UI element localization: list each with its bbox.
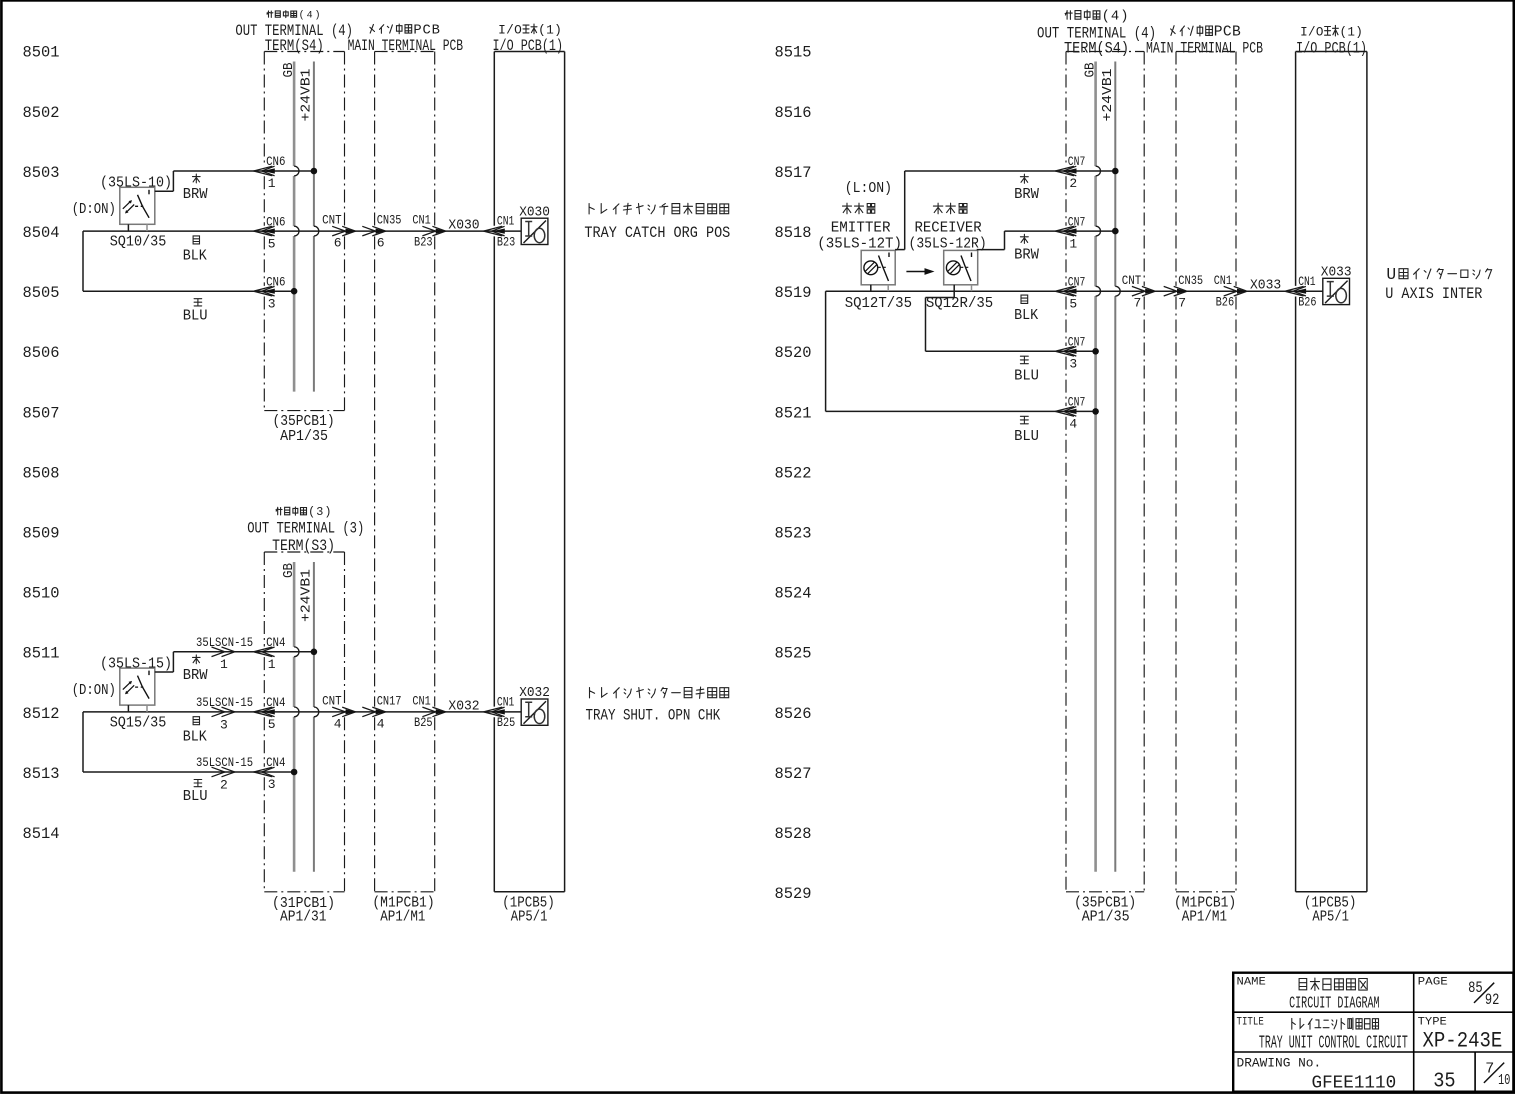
svg-text:CN35: CN35: [377, 213, 402, 228]
svg-text:35: 35: [1433, 1071, 1455, 1094]
svg-text:4: 4: [377, 716, 385, 731]
svg-text:PAGE: PAGE: [1418, 977, 1449, 989]
svg-text:CN35: CN35: [1178, 273, 1203, 288]
svg-text:8502: 8502: [23, 104, 60, 122]
svg-text:TYPE: TYPE: [1418, 1017, 1448, 1029]
svg-text:B: B: [432, 23, 440, 38]
svg-text:TRAY UNIT CONTROL CIRCUIT: TRAY UNIT CONTROL CIRCUIT: [1259, 1034, 1408, 1054]
svg-text:): ): [315, 9, 321, 21]
svg-text:8526: 8526: [775, 705, 812, 723]
svg-text:1: 1: [546, 22, 554, 37]
svg-text:TERM(S3): TERM(S3): [272, 537, 335, 555]
svg-text:B23: B23: [414, 234, 433, 249]
svg-text:I: I: [1300, 26, 1308, 40]
svg-text:8527: 8527: [775, 765, 812, 783]
svg-text:10: 10: [1498, 1072, 1510, 1089]
svg-text:+24VB1: +24VB1: [300, 69, 315, 122]
svg-text:AP1/35: AP1/35: [280, 428, 328, 445]
svg-text:GB: GB: [1083, 63, 1099, 78]
svg-text:(: (: [1340, 26, 1348, 40]
svg-text:X030: X030: [448, 219, 479, 234]
svg-text:8518: 8518: [775, 224, 812, 242]
svg-text:(35LS-15): (35LS-15): [100, 655, 172, 672]
svg-text:2: 2: [1069, 176, 1077, 191]
svg-text:SQ12R/35: SQ12R/35: [926, 295, 993, 312]
svg-text:AP5/1: AP5/1: [511, 909, 548, 926]
svg-text:7: 7: [1178, 296, 1186, 311]
svg-text:B: B: [1232, 25, 1241, 41]
svg-text:GB: GB: [281, 563, 297, 578]
svg-text:8511: 8511: [23, 645, 60, 663]
svg-text:C: C: [1223, 25, 1232, 41]
svg-text:(: (: [1102, 8, 1110, 24]
svg-text:6: 6: [334, 236, 342, 251]
svg-text:B26: B26: [1216, 295, 1235, 310]
svg-text:(D:ON): (D:ON): [72, 682, 116, 699]
svg-text:TITLE: TITLE: [1237, 1017, 1265, 1029]
svg-text:BLU: BLU: [1014, 428, 1039, 445]
svg-text:CN6: CN6: [266, 214, 285, 229]
svg-text:CN17: CN17: [377, 694, 402, 709]
svg-text:1: 1: [1347, 26, 1355, 40]
svg-text:AP1/31: AP1/31: [280, 909, 327, 926]
svg-text:OUT TERMINAL (3): OUT TERMINAL (3): [247, 519, 364, 537]
svg-text:4: 4: [1111, 9, 1119, 24]
svg-text:P: P: [413, 23, 421, 38]
svg-text:4: 4: [1069, 417, 1077, 432]
svg-text:(35LS-12R): (35LS-12R): [909, 235, 987, 252]
svg-text:CN1: CN1: [412, 694, 430, 709]
svg-text:B25: B25: [414, 715, 433, 730]
svg-text:8524: 8524: [775, 585, 812, 603]
svg-text:X032: X032: [448, 699, 479, 714]
svg-text:1: 1: [1069, 236, 1077, 251]
svg-text:BLU: BLU: [183, 788, 208, 805]
svg-text:EMITTER: EMITTER: [831, 220, 891, 237]
svg-text:3: 3: [220, 717, 228, 732]
svg-text:): ): [554, 22, 562, 37]
svg-text:35LSCN-15: 35LSCN-15: [196, 755, 253, 770]
svg-text:CN7: CN7: [1068, 214, 1086, 229]
svg-text:7: 7: [1485, 1061, 1494, 1078]
svg-text:8528: 8528: [775, 825, 812, 843]
svg-text:CN6: CN6: [266, 274, 285, 289]
svg-text:CN7: CN7: [1068, 335, 1086, 350]
svg-text:O: O: [1316, 26, 1324, 40]
svg-text:4: 4: [334, 716, 342, 731]
svg-text:BRW: BRW: [1014, 246, 1039, 263]
svg-text:BLK: BLK: [183, 728, 207, 745]
svg-text:8523: 8523: [775, 525, 812, 543]
svg-text:8508: 8508: [23, 464, 60, 482]
svg-text:MAIN TERMINAL PCB: MAIN TERMINAL PCB: [348, 37, 464, 55]
svg-text:8519: 8519: [775, 284, 812, 302]
svg-text:8514: 8514: [23, 825, 60, 843]
svg-text:P: P: [1214, 25, 1223, 41]
svg-text:7: 7: [1133, 296, 1141, 311]
svg-text:8529: 8529: [775, 885, 812, 903]
svg-text:AP5/1: AP5/1: [1312, 909, 1349, 926]
svg-text:8506: 8506: [23, 344, 60, 362]
svg-text:C: C: [422, 23, 430, 38]
svg-text:8503: 8503: [23, 164, 60, 182]
svg-text:8516: 8516: [775, 104, 812, 122]
svg-text:/: /: [1308, 26, 1316, 40]
svg-text:8525: 8525: [775, 645, 812, 663]
svg-text:I/O PCB(1): I/O PCB(1): [493, 37, 564, 55]
svg-text:92: 92: [1485, 991, 1500, 1009]
svg-text:4: 4: [307, 10, 313, 21]
svg-text:BRW: BRW: [183, 667, 208, 684]
svg-text:I/O PCB(1): I/O PCB(1): [1296, 39, 1367, 57]
svg-text:AP1/35: AP1/35: [1082, 909, 1130, 926]
svg-text:CN1: CN1: [1298, 274, 1316, 289]
svg-text:8507: 8507: [23, 404, 60, 422]
svg-text:8520: 8520: [775, 344, 812, 362]
svg-text:CN4: CN4: [266, 635, 286, 650]
svg-text:8504: 8504: [23, 224, 60, 242]
svg-text:5: 5: [268, 236, 276, 251]
svg-text:1: 1: [268, 176, 276, 191]
svg-text:2: 2: [220, 777, 228, 792]
svg-text:CN6: CN6: [266, 154, 285, 169]
svg-text:TRAY SHUT. OPN CHK: TRAY SHUT. OPN CHK: [586, 707, 721, 725]
svg-text:RECEIVER: RECEIVER: [915, 220, 982, 237]
svg-text:35LSCN-15: 35LSCN-15: [196, 635, 253, 650]
svg-text:3: 3: [268, 296, 276, 311]
svg-text:8515: 8515: [775, 44, 812, 62]
svg-text:BRW: BRW: [183, 186, 208, 203]
svg-text:8512: 8512: [23, 705, 60, 723]
svg-text:(L:ON): (L:ON): [845, 180, 892, 197]
svg-text:TERM(S4): TERM(S4): [1064, 39, 1129, 57]
svg-text:CN4: CN4: [266, 695, 286, 710]
svg-text:SQ15/35: SQ15/35: [110, 714, 167, 731]
svg-text:8505: 8505: [23, 284, 60, 302]
svg-text:CN1: CN1: [1214, 273, 1232, 288]
svg-text:DRAWING No.: DRAWING No.: [1237, 1055, 1322, 1070]
svg-text:3: 3: [1069, 357, 1077, 372]
svg-text:8517: 8517: [775, 164, 812, 182]
svg-text:BLU: BLU: [183, 307, 208, 324]
svg-text:NAME: NAME: [1237, 977, 1267, 989]
svg-text:TERM(S4): TERM(S4): [265, 37, 324, 55]
svg-text:(D:ON): (D:ON): [72, 201, 116, 218]
svg-text:B23: B23: [497, 234, 515, 249]
svg-text:CN1: CN1: [497, 214, 515, 229]
svg-text:CNT: CNT: [1122, 273, 1142, 288]
svg-text:U: U: [1386, 265, 1396, 284]
svg-text:+24VB1: +24VB1: [300, 569, 315, 622]
svg-text:(: (: [299, 9, 305, 21]
svg-text:): ): [1120, 8, 1128, 24]
svg-text:8513: 8513: [23, 765, 60, 783]
svg-text:CNT: CNT: [322, 694, 342, 709]
svg-text:CNT: CNT: [322, 213, 342, 228]
svg-text:+24VB1: +24VB1: [1101, 69, 1116, 122]
svg-text:(35LS-12T): (35LS-12T): [817, 235, 902, 252]
svg-text:CN7: CN7: [1068, 395, 1086, 410]
svg-text:BLK: BLK: [1014, 307, 1038, 324]
svg-text:): ): [324, 505, 331, 519]
svg-text:(: (: [308, 505, 315, 519]
svg-text:AP1/M1: AP1/M1: [1182, 909, 1227, 926]
svg-text:BLK: BLK: [183, 248, 207, 265]
svg-text:6: 6: [377, 236, 385, 251]
svg-text:CN4: CN4: [266, 755, 286, 770]
svg-text:(: (: [538, 22, 546, 37]
svg-text:5: 5: [268, 717, 276, 732]
svg-text:8510: 8510: [23, 585, 60, 603]
svg-text:U AXIS INTER: U AXIS INTER: [1385, 285, 1483, 303]
svg-text:1: 1: [268, 657, 276, 672]
svg-text:TRAY CATCH ORG POS: TRAY CATCH ORG POS: [584, 224, 730, 242]
svg-text:8509: 8509: [23, 525, 60, 543]
svg-text:): ): [1355, 26, 1363, 40]
svg-text:3: 3: [316, 505, 323, 519]
svg-text:B25: B25: [497, 715, 515, 730]
svg-text:/: /: [506, 22, 514, 37]
svg-text:35LSCN-15: 35LSCN-15: [196, 695, 253, 710]
svg-text:5: 5: [1069, 296, 1077, 311]
svg-text:BLU: BLU: [1014, 368, 1039, 385]
svg-text:8522: 8522: [775, 464, 812, 482]
svg-text:85: 85: [1468, 979, 1483, 997]
svg-text:GFEE1110: GFEE1110: [1312, 1073, 1397, 1094]
svg-text:O: O: [514, 22, 522, 37]
svg-text:CN1: CN1: [497, 695, 515, 710]
svg-text:CN7: CN7: [1068, 274, 1086, 289]
svg-text:BRW: BRW: [1014, 186, 1039, 203]
svg-text:SQ10/35: SQ10/35: [110, 234, 167, 251]
svg-text:CN1: CN1: [412, 213, 430, 228]
svg-text:X033: X033: [1250, 279, 1281, 294]
svg-text:8521: 8521: [775, 404, 812, 422]
svg-text:1: 1: [220, 657, 228, 672]
svg-text:I: I: [498, 22, 506, 37]
svg-text:CIRCUIT DIAGRAM: CIRCUIT DIAGRAM: [1289, 995, 1380, 1014]
svg-text:(35LS-10): (35LS-10): [100, 175, 172, 192]
svg-text:SQ12T/35: SQ12T/35: [845, 295, 912, 312]
svg-text:8501: 8501: [23, 44, 60, 62]
svg-text:MAIN TERMINAL PCB: MAIN TERMINAL PCB: [1146, 39, 1263, 57]
svg-text:B26: B26: [1298, 295, 1316, 310]
svg-text:XP-243E: XP-243E: [1423, 1029, 1503, 1054]
svg-text:GB: GB: [281, 63, 297, 78]
svg-text:AP1/M1: AP1/M1: [380, 909, 425, 926]
svg-text:CN7: CN7: [1068, 154, 1086, 169]
svg-text:3: 3: [268, 777, 276, 792]
